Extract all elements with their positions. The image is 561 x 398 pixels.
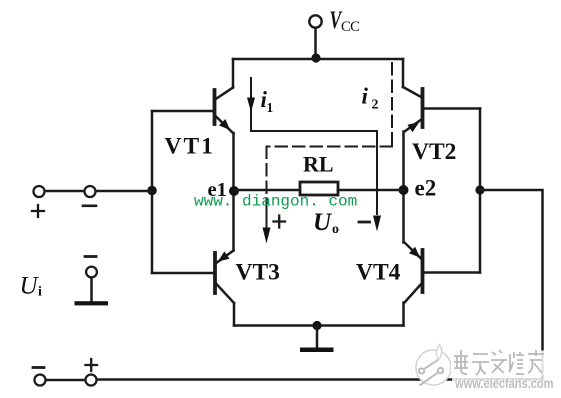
- svg-text:www.elecfans.com: www.elecfans.com: [454, 376, 553, 392]
- svg-text:i: i: [362, 84, 369, 109]
- resistor RL: [300, 182, 338, 195]
- svg-text:i: i: [38, 285, 42, 300]
- wire VT4 base: [424, 271, 480, 274]
- label plus bottom input: [86, 359, 98, 371]
- wire VT2 collector drop: [402, 59, 405, 87]
- arrow i1 head bottom: [373, 216, 381, 232]
- svg-text:o: o: [332, 222, 339, 237]
- wire between bottom input terminals: [46, 379, 85, 382]
- svg-text:2: 2: [372, 98, 379, 113]
- label VCC: [330, 6, 360, 35]
- node base junction right: [475, 185, 484, 194]
- watermark elecfans text: [451, 351, 547, 376]
- svg-text:e2: e2: [415, 176, 437, 201]
- svg-text:VT2: VT2: [412, 139, 456, 165]
- svg-text:U: U: [313, 209, 333, 236]
- wire between top input terminals: [45, 190, 84, 193]
- watermark elecfans logo: [416, 345, 451, 386]
- node ground junction: [312, 321, 321, 330]
- label i1: [261, 87, 274, 115]
- wire VT1 emitter to e1: [232, 133, 235, 190]
- wire base bus right: [479, 109, 482, 273]
- transistor VT3: [215, 251, 234, 304]
- label minus top input: [83, 205, 96, 208]
- label Uo: [313, 209, 339, 237]
- wire i1 current path: [251, 78, 377, 214]
- svg-text:www. diangon. com: www. diangon. com: [194, 193, 357, 211]
- arrow i1 head top: [247, 98, 255, 113]
- label minus mid: [85, 255, 96, 258]
- wire VT2 emitter to e2: [402, 132, 405, 191]
- terminal input bottom left circle: [35, 375, 46, 386]
- label Ui: [20, 273, 43, 300]
- node e2: [399, 185, 409, 195]
- wire VT1 base: [152, 110, 214, 113]
- transistor VT1: [215, 88, 234, 134]
- svg-text:RL: RL: [303, 152, 334, 177]
- svg-text:1: 1: [267, 100, 274, 115]
- transistor VT4: [405, 243, 423, 303]
- wire VT2 base: [424, 107, 480, 110]
- wire bottom rail: [234, 324, 404, 327]
- wire VT3 collector drop: [233, 303, 236, 326]
- terminal input top left circle: [34, 186, 45, 197]
- label minus bottom input: [33, 366, 44, 369]
- node input junction left: [147, 186, 157, 196]
- wire VT4 emitter to e2: [402, 190, 405, 243]
- wire top input to junction: [96, 190, 152, 193]
- svg-text:VT4: VT4: [356, 260, 401, 286]
- transistor VT2: [403, 87, 423, 132]
- wire bottom return: [97, 378, 543, 381]
- svg-text:VT1: VT1: [165, 134, 215, 160]
- terminal input bottom right circle: [86, 375, 97, 386]
- wire RL to e2: [338, 189, 404, 192]
- wire VT4 collector drop: [402, 303, 405, 326]
- label minus Uo: [359, 221, 370, 224]
- terminal input top right circle: [85, 186, 96, 197]
- wire VCC stem: [314, 28, 317, 55]
- wire i2 dashed path: [267, 63, 393, 205]
- wire VT3 base: [152, 272, 214, 275]
- wire VT1 collector drop: [232, 59, 235, 88]
- arrow i2 head: [263, 228, 271, 244]
- svg-text:VT3: VT3: [236, 260, 280, 286]
- wire base bus left: [151, 111, 154, 273]
- wire VT3 emitter to e1: [232, 190, 235, 251]
- wire e1 to RL: [234, 189, 301, 192]
- ground mid: [75, 278, 109, 305]
- svg-text:U: U: [20, 273, 40, 300]
- label plus top input: [32, 205, 44, 217]
- svg-text:CC: CC: [341, 19, 359, 35]
- terminal mid reference circle: [86, 267, 97, 278]
- label i2: [362, 84, 379, 113]
- wire right feedback link: [480, 190, 543, 380]
- wire top supply rail: [233, 58, 403, 61]
- label plus Uo: [274, 216, 286, 228]
- terminal VCC top circle: [309, 15, 321, 27]
- ground main: [300, 326, 334, 353]
- node e1: [229, 186, 239, 196]
- node VCC rail junction: [311, 53, 320, 62]
